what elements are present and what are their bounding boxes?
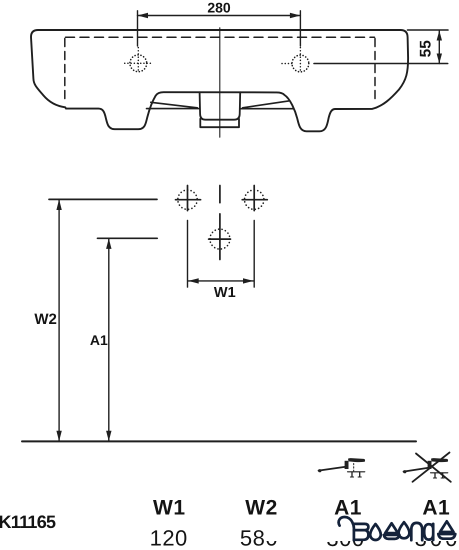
svg-text:W1: W1 (153, 497, 186, 520)
svg-text:A1: A1 (90, 332, 108, 348)
basin bottom edge left wedge (147, 102, 200, 108)
drain hole dotted circle (210, 229, 230, 249)
watermark logo (339, 517, 456, 540)
drain hole cross (209, 214, 231, 260)
W1 arrow right (243, 278, 254, 283)
W1 arrow left (188, 278, 199, 283)
A1 arrow down (106, 431, 111, 442)
W2 arrow down (56, 431, 61, 442)
hidden inner rim dashed right (374, 39, 376, 100)
drain recess lower lip (200, 119, 239, 127)
watermark sail glyph 2 (438, 521, 455, 538)
W2 reference line (49, 198, 157, 200)
tap hole extension line to 55 dim (314, 63, 448, 65)
svg-text:55: 55 (418, 40, 435, 58)
basin outline (31, 30, 408, 131)
watermark glyph d (424, 524, 433, 540)
fixing hole right cross (242, 186, 267, 211)
tap hole right dotted circle (292, 55, 309, 72)
dimension 55 line (438, 31, 440, 64)
fixing hole left dotted circle (178, 190, 197, 209)
tap icon crossed out (403, 453, 451, 482)
dimension 55 arrow up (437, 31, 442, 41)
centerline dash (219, 186, 221, 203)
A1 arrow up (106, 238, 111, 249)
dimension 280 extension line right (299, 11, 301, 46)
dimension 55 arrow down (437, 54, 442, 64)
fixing hole right dotted circle (245, 190, 264, 209)
tap icon (318, 458, 365, 477)
svg-text:W2: W2 (34, 311, 57, 328)
W2 dimension line (58, 199, 60, 441)
tap hole left dotted circle (130, 55, 147, 72)
watermark white box (266, 516, 459, 541)
dimension 280 line (138, 15, 301, 17)
watermark teardrop o 2 (399, 522, 410, 538)
watermark sail glyph (384, 523, 400, 539)
A1 reference line (98, 237, 158, 239)
tap hole left dotted cross (125, 48, 153, 72)
top edge extension line (408, 29, 449, 31)
basin centerline (219, 28, 221, 137)
A1 dimension line (108, 238, 110, 441)
W1 extension line left (187, 220, 189, 287)
hidden inner rim dashed top (66, 36, 375, 38)
svg-text:K11165: K11165 (0, 512, 56, 532)
W2 arrow up (56, 199, 61, 210)
cross-out X (413, 453, 451, 482)
basin bottom edge right wedge (241, 101, 294, 109)
svg-text:W1: W1 (214, 285, 236, 301)
fixing hole left cross (176, 186, 201, 211)
svg-text:120: 120 (150, 525, 188, 550)
floor line (22, 440, 416, 442)
W1 dimension line (188, 280, 253, 282)
hidden inner rim dashed left (64, 39, 66, 100)
dimension 280 arrow left (138, 13, 149, 18)
drain recess U (200, 92, 241, 119)
svg-text:280: 280 (207, 0, 231, 16)
watermark teardrop o (370, 524, 381, 540)
watermark letter B with swan curl (339, 517, 354, 540)
tap hole right dotted cross (282, 48, 300, 72)
dimension 280 arrow right (290, 13, 301, 18)
watermark arch n (411, 523, 422, 540)
dimension 280 extension line left (137, 11, 139, 46)
W1 extension line right (253, 220, 255, 287)
